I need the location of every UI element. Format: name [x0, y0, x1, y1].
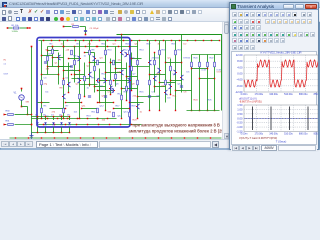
wire link 31 [116, 68, 127, 70]
svg-text:340.00u: 340.00u [269, 133, 278, 136]
wire link 22 [66, 102, 82, 104]
wire link 3 [42, 74, 59, 76]
svg-text:-8.86737m (V(P33)): -8.86737m (V(P33)) [239, 99, 262, 103]
wire link 21 [50, 108, 66, 110]
wire column right x153 [154, 53, 156, 93]
resistor R22 [113, 112, 115, 117]
svg-text:0.00: 0.00 [237, 72, 243, 76]
resistor R32 [131, 66, 133, 71]
resistor R29 [74, 60, 76, 65]
svg-text:1.059k: 1.059k [12, 31, 19, 33]
svg-text:при амплитуде выходного напряж: при амплитуде выходного напряжения 8 В [133, 123, 220, 128]
svg-text:1.50: 1.50 [237, 103, 243, 107]
source V1 sine input [19, 95, 24, 100]
capacitor C3 [104, 96, 107, 97]
resistor R26 [207, 62, 209, 67]
svg-text:0.00m: 0.00m [241, 133, 248, 136]
svg-text:R1 10k: R1 10k [12, 25, 20, 27]
wire column x98 [99, 69, 101, 103]
resistor R7 [159, 50, 161, 55]
capacitor C5 [180, 86, 183, 87]
wire column x109 [110, 59, 112, 95]
wire column right x174 [175, 41, 177, 111]
svg-text:510.00u: 510.00u [284, 133, 293, 136]
resistor R13 [137, 60, 139, 65]
resistor R15 [165, 80, 167, 85]
svg-text:KT815: KT815 [184, 58, 191, 60]
svg-text:KYVT7VD2_Neulo_28V-19E.CIR: KYVT7VD2_Neulo_28V-19E.CIR [260, 51, 301, 55]
resistor R27 [214, 62, 216, 67]
transient analysis child window [229, 2, 319, 150]
transistor Q7 [150, 60, 152, 65]
resistor R34 [170, 66, 172, 71]
resistor R12 [113, 60, 115, 65]
svg-text:-1.00: -1.00 [236, 125, 243, 129]
wire column x104 [105, 41, 107, 111]
op-amp macro boundary box [37, 38, 130, 128]
wire left input column [31, 47, 33, 138]
resistor R2 top with capacitor C9 [64, 26, 72, 28]
transistor Q15 [64, 94, 66, 99]
resistor R8 [175, 50, 177, 55]
wire link 37 [95, 86, 106, 88]
wire link 35 [48, 66, 64, 68]
transistor Q13 [138, 104, 140, 109]
svg-text:680.00u: 680.00u [299, 93, 308, 96]
wire link 14 [150, 74, 166, 76]
svg-text:510.00u: 510.00u [284, 93, 293, 96]
wire link 6 [80, 84, 98, 86]
wire column x51 [52, 47, 54, 67]
wire column right x206 [207, 55, 209, 111]
junction dots [52, 46, 53, 47]
wire link 36 [75, 74, 85, 76]
resistor R17 [137, 80, 139, 85]
wire link 11 [122, 88, 138, 90]
wire link 10 [114, 80, 130, 82]
svg-text:1.00: 1.00 [237, 107, 243, 111]
resistor R5 [105, 50, 107, 55]
wire link 1 [53, 57, 64, 59]
wire link 26 [130, 102, 144, 104]
svg-text:амплитуда продуктов искажений: амплитуда продуктов искажений более 2 В … [129, 129, 230, 134]
wire link 8 [98, 90, 114, 92]
diode D8 clamp row [61, 117, 63, 121]
svg-text:2N5551: 2N5551 [152, 58, 160, 60]
transistor Q4 [104, 78, 106, 83]
plot2 error trace spikes [244, 117, 318, 119]
wire link 34 [171, 80, 182, 82]
plot1 grid [244, 55, 318, 92]
transistor Q1 [59, 55, 61, 60]
main toolbars [0, 8, 320, 22]
svg-text:170.00u: 170.00u [254, 93, 263, 96]
transistor Q11 [98, 78, 100, 83]
resistor R30 [94, 66, 96, 71]
transistor Q12 [112, 88, 114, 93]
transistor Q10 [174, 70, 176, 75]
plot2 zero reference dashed [244, 117, 318, 119]
wire ground rail bottom [10, 137, 222, 139]
wire column right x180 [181, 35, 183, 93]
resistor R30 input divider [4, 114, 7, 116]
wire link 32 [132, 58, 142, 60]
wire link 12 [130, 66, 150, 68]
wire column right x190 [191, 55, 193, 111]
diode D9 clamp row [69, 117, 71, 121]
resistor R31 [115, 74, 117, 79]
transistor Q16 [78, 78, 80, 83]
resistor R31 input divider lower [4, 124, 7, 126]
capacitor C1 [44, 62, 47, 63]
schematic tab bar [0, 139, 229, 148]
svg-text:-0.50: -0.50 [236, 121, 243, 125]
diode D5 clamp row [37, 117, 39, 121]
wire link 23 [82, 108, 98, 110]
wire link 4 [64, 70, 80, 72]
transient title bar [230, 3, 318, 10]
capacitor C6 [88, 96, 91, 97]
wire link 9 [106, 72, 122, 74]
wire column x62 [63, 41, 65, 119]
wire column x125 [126, 63, 128, 101]
diode D7 clamp row [53, 117, 55, 121]
resistor R35 [84, 76, 86, 81]
resistor R4 [89, 50, 91, 55]
wire output link top-right [192, 54, 222, 56]
input node arrows [4, 114, 7, 116]
resistor R25 [199, 62, 201, 67]
transistor Q6 [128, 78, 130, 83]
resistor R18 [41, 108, 43, 113]
wire link 16 [166, 62, 182, 64]
resistor R37 [126, 86, 128, 91]
svg-text:0.50: 0.50 [237, 112, 243, 116]
wire column x120 [121, 35, 123, 119]
resistor R3 [71, 50, 73, 55]
wire link 25 [114, 108, 130, 110]
wire mid-low rail [32, 118, 117, 120]
svg-text:-8.00: -8.00 [236, 84, 243, 88]
wire column right x158 [159, 41, 161, 111]
wire link 28 [69, 58, 80, 60]
schematic background [2, 23, 224, 140]
waveform V(OUT1) [244, 60, 318, 87]
wire link 24 [98, 102, 114, 104]
resistor R19 [63, 108, 65, 113]
transistor Q22 [155, 76, 157, 81]
wire column x57 [58, 53, 60, 85]
resistor R21 [97, 108, 99, 113]
transistor Q9 [166, 90, 168, 95]
wire bottom-left rail lower [32, 132, 70, 134]
svg-text:850.00u: 850.00u [314, 133, 318, 136]
wire link 2 [59, 66, 72, 68]
transient tab bar [231, 145, 317, 151]
transistor Q2 [78, 56, 80, 61]
wire supply rail top [39, 40, 220, 42]
wire output rail right [187, 110, 220, 112]
wire link 38 [111, 62, 122, 64]
wire column x130 [131, 53, 133, 91]
wire feedback loop top [117, 35, 222, 111]
transistor Q3 [90, 72, 92, 77]
wire bottom-left rail upper [32, 116, 70, 118]
resistor R1 input attenuator [8, 27, 13, 29]
svg-text:12.00: 12.00 [236, 53, 243, 57]
resistor R23 [129, 112, 131, 117]
svg-text:0.00m: 0.00m [241, 93, 248, 96]
capacitor C2 [70, 66, 73, 67]
resistor R16 [121, 95, 123, 100]
svg-text:-2A: -2A [66, 49, 70, 52]
resistor R20 [79, 94, 81, 99]
svg-text:850.00u: 850.00u [314, 93, 318, 96]
transistor Q20 [111, 86, 113, 91]
wire link 7 [90, 62, 106, 64]
svg-text:T (Secs): T (Secs) [276, 140, 287, 144]
schematic vertical scrollbar [222, 22, 229, 139]
wire column x40 [41, 41, 43, 119]
wire link 20 [38, 102, 50, 104]
wire link 30 [100, 80, 111, 82]
wire column right x198 [199, 55, 201, 111]
resistor R9 [41, 80, 43, 85]
resistor R24 [191, 62, 193, 67]
resistor R36 [110, 80, 112, 85]
wire link 0 [42, 55, 53, 57]
ground symbol bottom-left [30, 133, 34, 139]
wire column x78 [79, 41, 81, 119]
wire column x46 [47, 47, 49, 75]
plot area [231, 51, 317, 145]
resistor R28 [47, 56, 49, 61]
wire link 27 [48, 50, 59, 52]
plot2 grid [244, 105, 318, 132]
wire link 17 [176, 90, 192, 92]
diode D6 clamp row [45, 117, 47, 121]
transistor Q14 [122, 50, 124, 55]
resistor R33 [154, 60, 156, 65]
wire column right x148 [149, 41, 151, 111]
resistor R10 [63, 80, 65, 85]
wire bottom rail inside box [39, 124, 142, 126]
wire column x88 [89, 41, 91, 87]
wire column x114 [115, 47, 117, 87]
transistor Q19 [93, 56, 95, 61]
wire column x67 [68, 63, 70, 93]
wire link 15 [160, 82, 176, 84]
transistor Q17 [182, 75, 184, 80]
resistor R11 [97, 60, 99, 65]
wire column x83 [84, 63, 86, 97]
transistor Q18 [69, 82, 71, 87]
wire link 39 [127, 76, 138, 78]
svg-text:4.00: 4.00 [237, 65, 243, 69]
wire column x73 [74, 47, 76, 83]
wire column x93 [94, 53, 96, 93]
svg-text:SIN: SIN [26, 102, 30, 104]
capacitor C4 [148, 96, 151, 97]
svg-text:8.00: 8.00 [237, 59, 243, 63]
wire column right x169 [170, 59, 172, 95]
svg-text:0.00: 0.00 [237, 116, 243, 120]
svg-text:170.00u: 170.00u [254, 133, 263, 136]
svg-text:OUT: OUT [4, 74, 9, 76]
transistor Q23 [169, 84, 171, 89]
transistor Q8 [158, 68, 160, 73]
wire link 19 [200, 78, 215, 80]
svg-text:680.00u: 680.00u [299, 133, 308, 136]
wire link 5 [72, 78, 90, 80]
transistor Q5 [122, 70, 124, 75]
wire second rail [48, 46, 138, 48]
main window frame [0, 0, 320, 150]
wire link 33 [155, 86, 166, 88]
resistor R6 [129, 50, 131, 55]
wire link 13 [138, 96, 160, 98]
svg-text:340.00u: 340.00u [269, 93, 278, 96]
wire link 29 [85, 52, 95, 54]
wire link 18 [192, 68, 208, 70]
svg-text:-4.00: -4.00 [236, 78, 243, 82]
resistor R2 [52, 49, 54, 54]
transistor Q21 [125, 52, 127, 57]
resistor R14 [149, 80, 151, 85]
wire column right x213 [214, 55, 216, 111]
schematic window canvas [0, 22, 229, 147]
svg-text:C9 152pF: C9 152pF [90, 28, 100, 30]
svg-text:OUT: OUT [217, 72, 222, 74]
plot2 zero dashed overlay [244, 117, 318, 119]
wire column right x164 [165, 41, 167, 103]
wire input vertical feed [27, 107, 29, 115]
wire column x136 [137, 41, 139, 119]
main title bar [0, 0, 320, 8]
svg-text:V(OUT)+T Gain=0.99757*V(P33): V(OUT)+T Gain=0.99757*V(P33) [239, 136, 277, 140]
